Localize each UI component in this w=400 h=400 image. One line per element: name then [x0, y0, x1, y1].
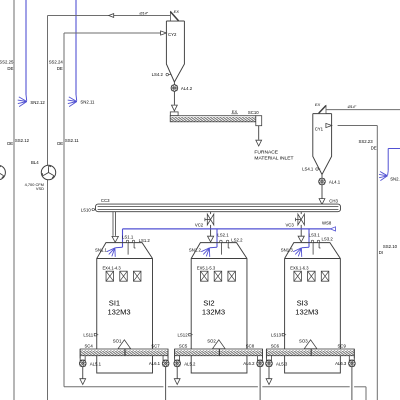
svg-text:SC8: SC8 — [246, 344, 255, 349]
flow arrow into CY1 — [326, 123, 332, 127]
svg-text:Ø14": Ø14" — [139, 12, 149, 16]
rotary valve AL4.1 — [319, 178, 326, 185]
wire CY1 inlet line — [338, 125, 378, 127]
rotary valve AL4.2 — [171, 85, 178, 92]
rotary valve AL5.2 — [174, 360, 181, 367]
screw conveyor SC10 outlet box — [256, 116, 262, 126]
wire AL4.1 down to CH3 — [321, 185, 323, 199]
flow arrow into SC10 — [172, 105, 178, 111]
svg-text:AL6.1: AL6.1 — [149, 361, 161, 366]
svg-text:DE: DE — [57, 66, 63, 71]
discharge cone SO2 — [212, 340, 225, 349]
valve VC2 — [207, 214, 214, 225]
svg-text:BL4: BL4 — [31, 160, 39, 165]
svg-text:SI3: SI3 — [297, 299, 308, 308]
svg-text:AL4.2: AL4.2 — [181, 86, 193, 91]
screw conveyor SC7 — [125, 349, 168, 356]
wire fill line x=64 from silos to CY2 — [63, 33, 65, 387]
screw conveyor SC10 body — [170, 116, 256, 122]
svg-text:AL5.2: AL5.2 — [184, 361, 196, 366]
flow arrow into silo SI2 — [208, 236, 214, 242]
rotary valve AL6.1 — [162, 360, 169, 367]
flow arrow on exhaust line — [109, 14, 114, 18]
svg-text:DE: DE — [7, 66, 13, 71]
wire blue aeration line SN2.11 — [75, 0, 77, 95]
wire CY1 gas outlet — [326, 109, 400, 111]
level switch LS2.2 probe — [226, 240, 229, 243]
svg-text:AL4.1: AL4.1 — [329, 179, 341, 184]
wire bottom collection header — [64, 386, 163, 388]
level switch LS1.2 probe — [132, 240, 135, 243]
silo SI2 body — [191, 243, 247, 373]
nozzle SN1.1 — [114, 248, 116, 257]
svg-text:VSD: VSD — [36, 186, 44, 191]
wire AL6.3 down to edge — [351, 367, 353, 400]
svg-text:EX4.1-4.3: EX4.1-4.3 — [102, 266, 121, 271]
svg-text:LS2.1: LS2.1 — [217, 233, 229, 238]
rotary valve AL5.3 — [266, 360, 273, 367]
screw conveyor SC5 — [175, 349, 220, 356]
level switch LS4.2 — [166, 73, 169, 76]
flow arrow from WS8 — [330, 227, 335, 231]
level switch LS10 — [92, 208, 95, 211]
svg-text:MATERIAL INLET: MATERIAL INLET — [254, 156, 293, 162]
level switch LS4.1 — [316, 168, 319, 171]
svg-text:CC3: CC3 — [101, 198, 110, 203]
EX flag on CY2 — [170, 12, 178, 21]
explosion vents EX6.1-6.3 panels — [294, 271, 302, 281]
svg-text:FURNACE: FURNACE — [254, 149, 278, 155]
svg-text:SN2.1: SN2.1 — [390, 176, 400, 181]
svg-text:AL5.1: AL5.1 — [90, 361, 102, 366]
svg-text:SC4: SC4 — [84, 344, 93, 349]
level switch LS11 — [94, 334, 97, 336]
wire blue drop to silo 3 nozzle — [308, 229, 310, 247]
rotary valve AL5.1 — [79, 360, 86, 367]
svg-text:LS10: LS10 — [81, 207, 92, 212]
svg-text:SO2: SO2 — [207, 338, 216, 343]
svg-text:CH3: CH3 — [329, 198, 338, 203]
svg-text:EX: EX — [315, 102, 321, 107]
svg-text:SS2.24: SS2.24 — [49, 59, 64, 64]
wire blue drop to silo 2 nozzle — [216, 229, 218, 247]
discharge cone SO3 — [304, 340, 317, 349]
screw conveyor SC4 — [80, 349, 125, 356]
wire AL4.2 to SC10 — [173, 91, 175, 104]
svg-text:AL5.3: AL5.3 — [276, 361, 288, 366]
silo SI3 body — [285, 243, 341, 373]
nozzle SN2.12 — [19, 102, 27, 107]
valve VC3 — [298, 214, 305, 225]
svg-text:EX6.1-6.3: EX6.1-6.3 — [290, 266, 309, 271]
svg-text:CY1: CY1 — [315, 127, 324, 132]
svg-text:SS2.23: SS2.23 — [358, 139, 373, 144]
wire AL6.1 down to edge — [165, 367, 167, 400]
EX flag on CY1 — [319, 106, 326, 114]
svg-text:SC9: SC9 — [338, 344, 347, 349]
nozzle SN1.3 — [300, 248, 302, 257]
screw conveyor SC8 — [220, 349, 263, 356]
svg-text:LS11: LS11 — [83, 332, 93, 337]
wire VC3 to silo SI3 — [300, 225, 302, 236]
svg-text:SS2.25: SS2.25 — [0, 59, 14, 64]
wire blue aeration line SN2.12 — [25, 0, 27, 95]
nozzle SN1.2 — [208, 248, 210, 257]
svg-text:SS2.12: SS2.12 — [15, 138, 30, 143]
air slide channel CC3 — [96, 204, 341, 212]
svg-text:132M3: 132M3 — [295, 308, 318, 317]
svg-text:132M3: 132M3 — [107, 308, 130, 317]
wire drop pipe to VC2 — [210, 212, 212, 214]
cyclone CY1 body — [313, 114, 322, 175]
svg-text:SS2.10: SS2.10 — [383, 244, 398, 249]
screw conveyor SC9 — [311, 349, 354, 356]
svg-text:LS3.2: LS3.2 — [322, 237, 334, 242]
svg-text:EX: EX — [174, 9, 180, 14]
wire AL6.2 down to edge — [259, 367, 261, 400]
wire fill line y=33 into CY2 — [64, 32, 161, 34]
svg-text:LS4.2: LS4.2 — [152, 72, 164, 77]
svg-text:LS1.2: LS1.2 — [139, 238, 151, 243]
flow arrow AL5.1 to header — [80, 379, 86, 385]
wire drop pipe to silo SI1 — [112, 212, 114, 236]
svg-text:Ø14": Ø14" — [347, 105, 357, 109]
svg-text:SO3: SO3 — [299, 338, 308, 343]
svg-text:DI: DI — [379, 250, 383, 255]
svg-text:VC3: VC3 — [285, 223, 294, 228]
svg-text:SN2.12: SN2.12 — [30, 100, 45, 105]
svg-text:CY2: CY2 — [168, 32, 177, 37]
level switch LS2.1 probe — [220, 240, 223, 243]
discharge cone SO1 — [118, 340, 131, 349]
cyclone CY2 body — [166, 21, 174, 82]
svg-text:SC7: SC7 — [151, 344, 160, 349]
svg-text:SC5: SC5 — [179, 344, 188, 349]
wire CY1 cone to rotary valve — [321, 175, 323, 179]
svg-text:LS2.2: LS2.2 — [231, 238, 243, 243]
svg-text:EX5.1-5.3: EX5.1-5.3 — [197, 266, 216, 271]
level switch LS12 — [189, 334, 192, 336]
explosion vents EX4.1-4.3 panels — [106, 271, 114, 281]
explosion vents EX5.1-5.3 panels — [201, 271, 209, 281]
svg-text:SN1.3: SN1.3 — [281, 247, 294, 252]
wire AL5.2 down — [176, 367, 178, 379]
wire blue aeration SN2.13 — [388, 148, 400, 150]
blower BL3 partial at left edge — [0, 165, 5, 179]
svg-text:AL6.2: AL6.2 — [243, 361, 255, 366]
svg-text:LS13: LS13 — [271, 332, 282, 337]
wire AL5.1 down — [82, 367, 84, 379]
svg-text:SO1: SO1 — [113, 338, 122, 343]
wire AL5.3 down — [268, 367, 270, 379]
flow arrow into CY2 — [161, 31, 167, 35]
svg-text:SC6: SC6 — [271, 344, 280, 349]
svg-text:AL6.3: AL6.3 — [335, 361, 347, 366]
wire CY2 cone to rotary valve — [173, 82, 175, 85]
svg-text:DE: DE — [57, 141, 63, 146]
screw conveyor SC6 — [266, 349, 311, 356]
wire exhaust line y=15.5 to blower — [48, 15, 171, 17]
wire VC2 to silo SI2 — [210, 225, 212, 236]
blower BL4 — [41, 165, 55, 179]
wire drop pipe to VC3 — [300, 212, 302, 214]
svg-text:EX: EX — [232, 109, 238, 114]
wire blue aeration header WS8 — [123, 228, 331, 230]
svg-text:SS2.11: SS2.11 — [65, 138, 79, 143]
flow arrow into CH3 channel — [319, 199, 325, 205]
wire conveying line to cyclone CY2 (vertical x=47.5) — [47, 16, 49, 400]
level switch LS13 — [282, 334, 285, 336]
svg-text:LS4.1: LS4.1 — [302, 167, 314, 172]
flow arrow AL5.2 to header — [174, 379, 180, 385]
screw conveyor SC10 inlet box — [170, 112, 178, 116]
svg-text:DE: DE — [7, 141, 13, 146]
flow arrow into silo SI1 — [112, 236, 118, 242]
svg-text:VC2: VC2 — [195, 223, 204, 228]
wire right border line x=377.3 — [376, 126, 378, 400]
svg-text:SI1: SI1 — [109, 299, 120, 308]
wire SC10 outlet down — [258, 126, 260, 140]
wire vertical line at x=14 (SS2.25/SS2.12 line) — [13, 0, 15, 400]
svg-text:WS8: WS8 — [322, 221, 332, 226]
level switch LS3.1 probe — [311, 240, 314, 243]
silo SI1 body — [97, 243, 153, 373]
svg-text:LS1.1: LS1.1 — [122, 234, 134, 239]
svg-text:LS12: LS12 — [178, 332, 189, 337]
flow arrow AL5.3 to header — [266, 379, 272, 385]
svg-text:LS3.1: LS3.1 — [309, 232, 321, 237]
flow arrow furnace material — [256, 140, 262, 146]
svg-text:SC10: SC10 — [248, 110, 259, 115]
level switch LS1.1 probe — [126, 240, 129, 243]
nozzle SN2.13 — [380, 176, 387, 181]
svg-text:DE: DE — [371, 145, 377, 150]
nozzle SN2.11 — [69, 102, 77, 107]
flow arrow into silo SI3 — [298, 236, 304, 242]
rotary valve AL6.3 — [349, 360, 356, 367]
svg-text:132M3: 132M3 — [202, 308, 225, 317]
rotary valve AL6.2 — [257, 360, 264, 367]
svg-text:SN2.11: SN2.11 — [80, 100, 95, 105]
svg-text:SI2: SI2 — [203, 299, 214, 308]
wire blue drop to silo 1 nozzle — [122, 229, 124, 247]
level switch LS3.2 probe — [317, 240, 320, 243]
